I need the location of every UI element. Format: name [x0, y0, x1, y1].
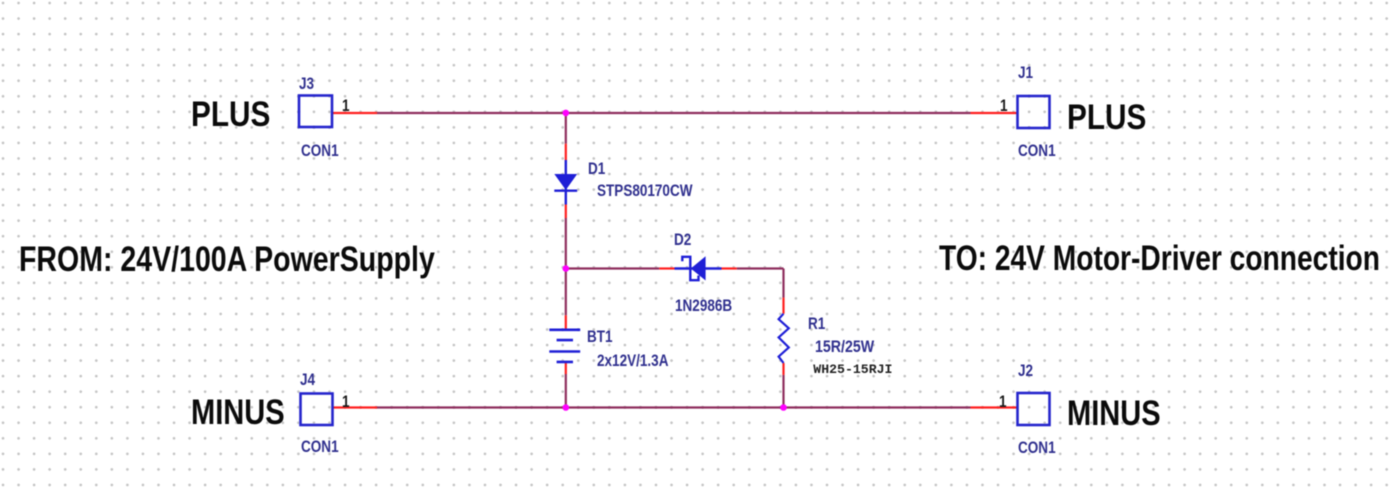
wire horizontal D2 to corner above R1 [737, 267, 784, 269]
label J1 pin 1 [1000, 98, 1008, 115]
label D1 value STPS80170CW [597, 183, 693, 200]
label J2 CON1 [1018, 440, 1056, 457]
pin R1 bottom red [782, 363, 784, 375]
junction middle node [563, 265, 570, 272]
label R1 type WH25-15RJI [813, 363, 892, 376]
label MINUS right [1067, 396, 1161, 431]
label D2 [674, 232, 691, 249]
wire vertical from BT1 to bottom junction [565, 374, 567, 408]
label R1 value 15R/25W [815, 339, 874, 356]
label J4 CON1 [301, 439, 339, 456]
battery BT1 plate short [557, 339, 573, 342]
label BT1 [587, 329, 613, 346]
wire vertical from D1 to middle junction [565, 218, 567, 269]
label J4 [300, 372, 315, 389]
wire top PLUS net J3 to J1 [377, 112, 971, 114]
wire vertical from top junction to D1 [565, 113, 567, 144]
label J3 pin 1 [342, 98, 350, 115]
zener D2 triangle [691, 256, 706, 280]
label J3 CON1 [301, 143, 339, 160]
diode D1 cathode bar [554, 189, 577, 191]
connector J3 square [299, 96, 332, 128]
wire vertical from middle junction to BT1 [565, 269, 567, 316]
label J3 [299, 76, 314, 93]
wire horizontal middle junction to D2 [566, 267, 660, 269]
pin J2 pin1 red [971, 406, 1018, 408]
junction bottom BT1 [563, 404, 570, 411]
label FROM: 24V/100A PowerSupply [19, 242, 435, 277]
label TO: 24V Motor-Driver connection [939, 241, 1380, 276]
wire vertical R1 to bottom junction [782, 375, 784, 408]
battery BT1 plate long [549, 350, 580, 353]
label R1 [808, 316, 825, 333]
diode D1 body line [565, 160, 567, 205]
junction bottom R1 [780, 404, 787, 411]
label J1 [1018, 65, 1033, 82]
label MINUS left [191, 395, 285, 430]
label J4 pin 1 [342, 394, 350, 411]
label PLUS right [1067, 100, 1146, 135]
pin J3 pin1 red [333, 112, 378, 114]
pin J4 pin1 red [333, 406, 377, 408]
resistor R1 zigzag [779, 314, 789, 363]
label J2 [1018, 363, 1033, 380]
pin D1 cathode red [565, 205, 567, 219]
label D2 value 1N2986B [675, 298, 732, 315]
pin R1 top red [782, 298, 784, 314]
connector J4 square [301, 394, 333, 426]
pin D1 anode red [565, 144, 567, 160]
junction top PLUS net [563, 110, 570, 117]
pin BT1 minus red [565, 363, 567, 374]
label PLUS left [191, 97, 270, 132]
zener D2 body line [675, 267, 722, 269]
wire vertical corner to R1 [782, 269, 784, 298]
battery BT1 plate short bottom [557, 361, 573, 364]
label BT1 value 2x12V/1.3A [597, 353, 668, 370]
connector J2 square [1018, 393, 1050, 425]
label D1 [588, 161, 605, 178]
diode D1 triangle [554, 174, 577, 190]
battery BT1 plate long top [549, 328, 580, 331]
label J2 pin 1 [999, 394, 1007, 411]
pin J1 pin1 red [971, 112, 1018, 114]
connector J1 square [1018, 96, 1050, 128]
zener D2 bent cathode bar [682, 257, 698, 280]
pin D2 cathode red [659, 267, 674, 269]
pin BT1 plus red [565, 315, 567, 329]
wire bottom MINUS net J4 to J2 [377, 406, 971, 408]
pin D2 anode red [722, 267, 737, 269]
label J1 CON1 [1018, 143, 1056, 160]
